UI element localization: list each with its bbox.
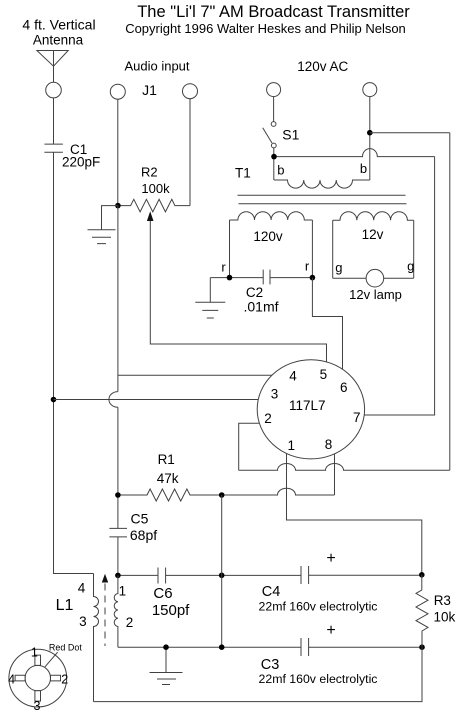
antenna symbol <box>37 51 68 83</box>
svg-text:.01mf: .01mf <box>243 299 278 315</box>
svg-text:2: 2 <box>264 411 272 426</box>
svg-text:7: 7 <box>353 410 361 425</box>
wire node A down to L1 pin 4 <box>54 400 94 574</box>
svg-text:R2: R2 <box>141 164 158 179</box>
svg-text:100k: 100k <box>141 181 170 196</box>
oscillator row wire C6/C4 <box>118 574 422 576</box>
capacitor C1 <box>44 144 63 152</box>
capacitor C6 <box>158 568 166 584</box>
svg-text:12v: 12v <box>362 227 384 242</box>
tube pin 8 wire down <box>334 450 336 495</box>
ground on C3 row <box>165 647 167 672</box>
wire AC left to switch <box>273 97 275 122</box>
svg-text:C4: C4 <box>262 584 281 600</box>
AC plug left terminal <box>267 83 281 97</box>
svg-text:g: g <box>335 260 342 275</box>
svg-text:C3: C3 <box>261 657 280 673</box>
svg-text:1: 1 <box>287 438 295 453</box>
ground under C2 <box>209 278 211 303</box>
120v secondary junction dots <box>227 275 233 281</box>
wire S1 to T1 primary left <box>273 148 275 180</box>
svg-text:1: 1 <box>31 646 38 660</box>
wire heater run S1 node to right rail (hop over primary right wire) <box>274 149 435 157</box>
L1 arrow <box>102 574 108 583</box>
svg-text:3: 3 <box>34 699 41 713</box>
svg-text:R1: R1 <box>158 452 175 467</box>
resistor R3 <box>416 575 428 647</box>
wire AC right down <box>369 97 371 180</box>
tube plate wire pin 7 <box>360 157 435 415</box>
coil L1 right winding <box>114 575 118 647</box>
switch S1 <box>271 122 276 127</box>
12v lamp bottom wires <box>333 277 414 279</box>
C3 row junction dots <box>163 644 169 650</box>
svg-text:4: 4 <box>289 369 297 384</box>
tube pin 1 wire down <box>287 450 422 575</box>
screen row wire (hops over pin1 and pin8 wires) <box>239 463 450 470</box>
potentiometer R2 <box>118 199 190 212</box>
svg-text:Antenna: Antenna <box>33 33 84 48</box>
svg-text:5: 5 <box>320 367 328 382</box>
wire grid rail to tube pin 3 <box>118 374 275 376</box>
coil L1 left winding <box>94 574 99 702</box>
T1 12v secondary winding <box>333 212 414 220</box>
C3 row wire <box>118 646 422 648</box>
wire 120v secondary to tube pin 6 <box>312 278 342 372</box>
svg-text:3: 3 <box>271 387 279 402</box>
svg-text:Audio input: Audio input <box>124 59 189 74</box>
svg-text:22mf 160v electrolytic: 22mf 160v electrolytic <box>259 599 378 613</box>
svg-text:J1: J1 <box>142 82 157 98</box>
R1 right junction dot <box>219 492 225 498</box>
wire tube pin 2 down to screen row <box>239 423 262 470</box>
row junction dots <box>115 573 121 579</box>
wire C1 down to node A <box>53 152 55 399</box>
wire R2 wiper to tube pin 5 <box>150 221 326 370</box>
wire node A row to tube pin 2 area <box>54 399 263 401</box>
wire J1 left down <box>117 99 119 206</box>
capacitor C3 <box>301 638 309 656</box>
resistor R1 <box>118 489 222 501</box>
jack J1 right terminal <box>183 84 198 99</box>
coil form bottom view outer circle <box>9 649 67 707</box>
R1 row wire right of R1 (hop over pin1 wire) <box>222 488 335 495</box>
svg-text:220pF: 220pF <box>62 154 100 169</box>
svg-text:47k: 47k <box>157 471 179 486</box>
lamp <box>366 269 384 287</box>
grid rail vertical from R2-left node down (hop over antenna row) <box>109 206 118 529</box>
capacitor C5 <box>109 528 127 537</box>
svg-text:r: r <box>305 259 310 274</box>
svg-text:120v: 120v <box>253 229 283 244</box>
Red Dot pointer line <box>45 652 58 667</box>
svg-text:4 ft. Vertical: 4 ft. Vertical <box>22 16 95 32</box>
svg-text:R3: R3 <box>434 593 451 608</box>
capacitor C2 <box>263 270 270 285</box>
svg-text:C6: C6 <box>153 585 172 602</box>
120v secondary side wires <box>230 220 313 278</box>
node A junction dot <box>51 397 57 403</box>
C2 row wire <box>210 277 312 279</box>
svg-text:8: 8 <box>325 437 333 452</box>
svg-text:Red Dot: Red Dot <box>49 643 83 653</box>
wire antenna to C1 <box>53 98 55 144</box>
svg-text:+: + <box>326 622 335 639</box>
wire J1 right down to R2 right end <box>189 98 191 205</box>
wire C5 to L1 pin1 node <box>117 537 119 576</box>
AC plug right terminal <box>363 83 377 97</box>
vertical feedback wire R1 node down to C3 row <box>221 495 223 647</box>
S1 node junction dot <box>271 154 277 160</box>
coil form inner circle <box>25 665 50 690</box>
svg-text:120v AC: 120v AC <box>297 59 348 74</box>
jack J1 left terminal <box>110 84 125 99</box>
tube top wire stub pin5 <box>326 344 328 372</box>
svg-text:117L7: 117L7 <box>289 398 326 413</box>
capacitor C4 <box>301 566 309 584</box>
svg-text:6: 6 <box>340 380 348 395</box>
wire AC right node to far right rail <box>370 132 450 134</box>
L1 core dashed line <box>104 584 106 647</box>
svg-text:150pf: 150pf <box>152 602 190 619</box>
svg-text:r: r <box>221 260 226 275</box>
transformer T1 core lines <box>238 195 407 203</box>
AC right junction dot <box>367 130 373 136</box>
right rail down to plate row <box>449 133 451 471</box>
coil form pin stubs <box>15 655 60 701</box>
svg-text:3: 3 <box>79 614 87 629</box>
R2 wiper arrow <box>147 211 154 221</box>
12v secondary side wires <box>333 220 414 278</box>
svg-text:4: 4 <box>8 673 15 687</box>
svg-text:b: b <box>360 161 367 176</box>
svg-text:S1: S1 <box>282 126 299 142</box>
svg-text:12v lamp: 12v lamp <box>349 287 402 302</box>
R2 left junction dot <box>115 203 121 209</box>
svg-text:g: g <box>407 259 414 274</box>
svg-text:1: 1 <box>119 584 127 599</box>
svg-text:C5: C5 <box>131 510 149 526</box>
tube envelope 117L7 <box>257 360 364 459</box>
B- bottom return wire <box>94 647 423 701</box>
svg-text:10k: 10k <box>434 609 456 624</box>
transformer T1 primary winding <box>274 180 370 188</box>
svg-text:68pf: 68pf <box>130 527 157 543</box>
antenna terminal circle <box>46 82 62 98</box>
svg-text:L1: L1 <box>56 597 74 614</box>
ground under R2 <box>88 230 116 244</box>
svg-text:+: + <box>326 550 335 567</box>
svg-text:4: 4 <box>78 581 86 596</box>
svg-text:2: 2 <box>61 673 68 687</box>
svg-text:22mf 160v electrolytic: 22mf 160v electrolytic <box>259 672 378 686</box>
R1 left junction dot <box>115 492 121 498</box>
svg-text:2: 2 <box>126 615 134 630</box>
svg-text:b: b <box>277 163 284 178</box>
T1 120v secondary winding <box>230 212 313 220</box>
svg-text:Copyright 1996 Walter Heskes a: Copyright 1996 Walter Heskes and Philip … <box>125 21 406 36</box>
svg-text:T1: T1 <box>235 166 251 181</box>
svg-text:The "Li'l 7" AM Broadcast Tran: The "Li'l 7" AM Broadcast Transmitter <box>137 3 410 21</box>
wire R2 junction to ground <box>102 206 118 230</box>
